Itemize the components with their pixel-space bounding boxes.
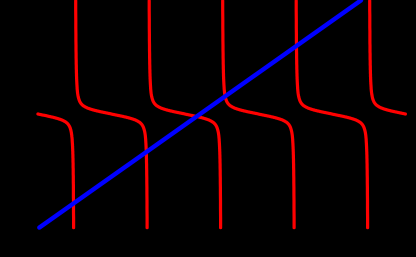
red curve branch 3 (full, from top asymptote to bottom asymptote): [149, 1, 220, 228]
red curve branch 4 (full, from top asymptote to bottom asymptote): [223, 1, 294, 228]
red curve branch 2 (full, from top asymptote to bottom asymptote): [76, 1, 147, 228]
blue straight line: [39, 0, 361, 227]
red curve branch 1 (left partial, flat start to downward asymptote): [38, 114, 74, 228]
red curve branch 6 (right partial, top asymptote to flat end): [370, 1, 406, 114]
red curve branch 5 (full, from top asymptote to bottom asymptote): [296, 1, 367, 228]
